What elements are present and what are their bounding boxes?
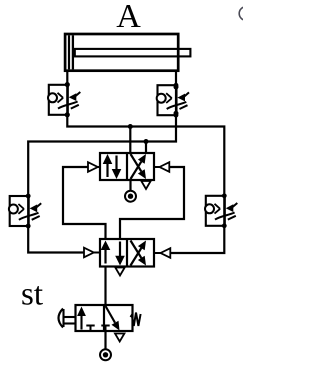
wire: V2 supply from st valve xyxy=(104,267,106,306)
pressure source under ST xyxy=(100,349,111,360)
valve V1 right pilot xyxy=(154,162,169,172)
exhaust under ST xyxy=(115,334,124,342)
valve ST push button actuator xyxy=(59,309,76,328)
valve ST right square: exhaust path and blocked port xyxy=(101,306,119,331)
wire: V1 right pilot line to V2 output xyxy=(120,167,184,239)
valve V2 left pilot xyxy=(84,248,100,258)
junction dots at flow valve connections xyxy=(65,82,179,117)
wire: dropper to valve V1 top port B xyxy=(145,142,147,154)
valve V2 right pilot xyxy=(154,248,170,258)
flow control valve FC2 (under right cylinder port) xyxy=(157,83,189,118)
valve V1 right square crossed arrows xyxy=(131,154,147,179)
node: junction dot on net B at valve port xyxy=(144,139,149,144)
node: junction dot on net A at valve port xyxy=(128,124,133,129)
valve V1 (4/2 double pilot) body xyxy=(100,153,154,180)
decorative partial circle top right xyxy=(239,7,253,21)
flow control valve FC4 (right edge) xyxy=(205,193,237,228)
valve V1 left pilot xyxy=(88,162,100,172)
wire: left port line to right edge line (net A) xyxy=(67,115,224,196)
flow control valve FC3 (left edge) xyxy=(9,194,41,229)
svg-text:A: A xyxy=(116,0,141,35)
exhaust under V2 xyxy=(115,268,124,276)
svg-text:st: st xyxy=(21,277,43,313)
wire: dropper to valve V1 top port A xyxy=(129,127,131,154)
flow control valve FC1 (under left cylinder port) xyxy=(48,82,80,117)
cylinder A body xyxy=(65,34,190,71)
exhaust under V1 xyxy=(141,181,150,189)
wire: V1 left pilot line from V2 output xyxy=(63,167,106,239)
valve ST return spring xyxy=(131,313,141,327)
wire: ST supply port to source xyxy=(104,331,106,349)
valve V1 left square arrows xyxy=(103,154,122,179)
wire: cylinder right port down xyxy=(175,70,177,87)
valve V2 left square arrows xyxy=(101,241,125,266)
valve V2 (4/2 double pilot) body xyxy=(100,239,154,267)
wire: right edge line down to V2 right pilot xyxy=(171,226,225,253)
wire: V1 P port to source xyxy=(129,180,131,191)
valve ST left square: up arrow and blocked port xyxy=(77,307,95,332)
wire: cylinder left port down xyxy=(66,70,68,85)
valve V2 right square crossed arrows xyxy=(131,241,147,266)
pressure source under V1 xyxy=(125,191,136,202)
valve ST (3/2 push button) body xyxy=(76,305,133,331)
wire: left edge line down to V2 left pilot xyxy=(28,226,84,253)
wire: right port line to left edge line (net B) xyxy=(28,113,176,196)
